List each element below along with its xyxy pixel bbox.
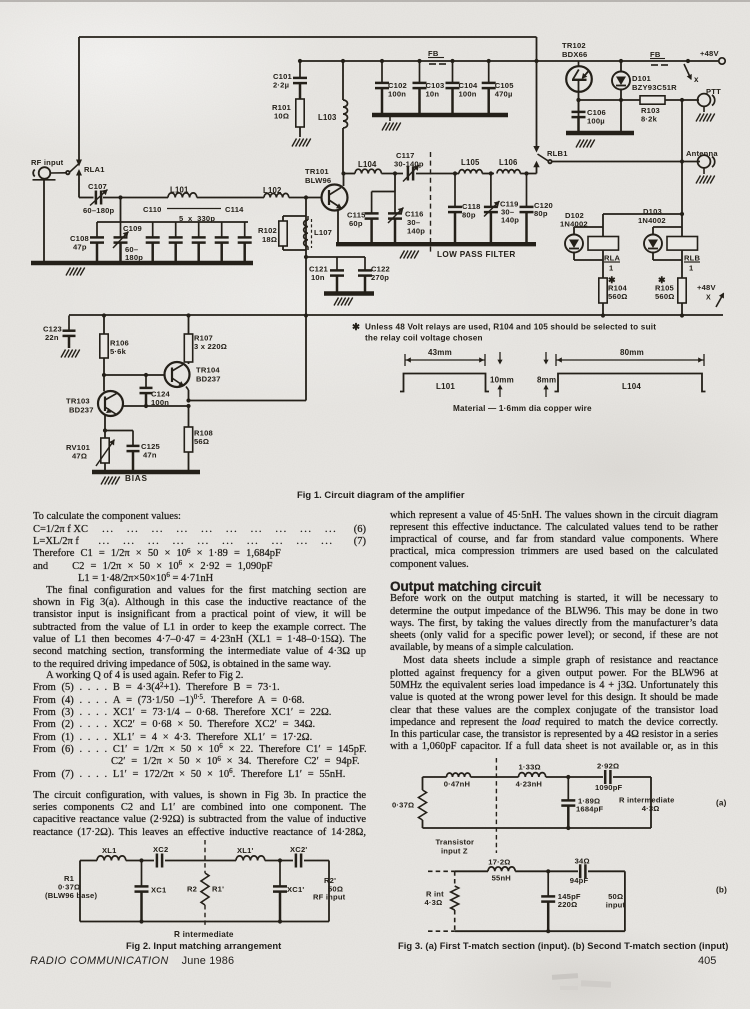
svg-text:10mm: 10mm [490,376,514,385]
svg-text:4·3Ω: 4·3Ω [642,804,660,813]
svg-text:C109: C109 [123,224,142,233]
svg-text:XC2: XC2 [153,845,168,854]
svg-text:47n: 47n [143,451,157,460]
svg-text:XL1': XL1' [237,846,254,855]
svg-text:1: 1 [609,264,614,273]
svg-text:5·6k: 5·6k [110,347,127,356]
svg-text:47Ω: 47Ω [72,452,87,461]
svg-text:LOW PASS FILTER: LOW PASS FILTER [437,250,516,259]
svg-text:BLW96: BLW96 [305,176,331,185]
svg-text:TR103: TR103 [66,397,90,406]
svg-text:1090pF: 1090pF [595,783,623,792]
svg-text:220Ω: 220Ω [558,900,578,909]
svg-text:(a): (a) [716,799,727,808]
svg-text:BIAS: BIAS [125,474,148,483]
svg-text:22n: 22n [45,333,59,342]
svg-text:x: x [694,75,699,84]
svg-text:100n: 100n [459,90,477,99]
svg-text:L104: L104 [622,382,641,391]
svg-text:2·92Ω: 2·92Ω [597,762,619,771]
svg-text:L104: L104 [358,160,377,169]
svg-text:RLA: RLA [604,254,621,263]
svg-text:TR102: TR102 [562,41,586,50]
svg-text:RLB1: RLB1 [547,149,568,158]
svg-text:60p: 60p [349,219,363,228]
svg-text:+48V: +48V [697,283,716,292]
svg-text:(b): (b) [716,886,727,895]
svg-text:18Ω: 18Ω [262,235,277,244]
svg-text:55nH: 55nH [492,874,511,883]
svg-text:XC1': XC1' [287,885,304,894]
svg-text:+48V: +48V [700,49,719,58]
svg-text:17·2Ω: 17·2Ω [488,858,510,867]
svg-text:L101: L101 [170,186,189,195]
svg-text:BDX66: BDX66 [562,50,587,59]
svg-text:10n: 10n [426,90,440,99]
svg-text:1: 1 [689,264,694,273]
svg-text:L106: L106 [499,158,518,167]
svg-text:(BLW96 base): (BLW96 base) [45,891,97,900]
svg-text:TR104: TR104 [196,366,220,375]
svg-text:5 x 330p: 5 x 330p [179,214,215,223]
svg-text:560Ω: 560Ω [655,292,675,301]
svg-text:XC1: XC1 [151,886,167,895]
svg-text:BD237: BD237 [69,406,94,415]
svg-text:Material — 1·6mm dia copper wi: Material — 1·6mm dia copper wire [453,404,592,413]
svg-text:1684pF: 1684pF [576,805,604,814]
svg-text:80mm: 80mm [620,348,644,357]
svg-text:140p: 140p [407,227,425,236]
svg-text:X: X [706,295,711,302]
svg-text:0·37Ω: 0·37Ω [392,801,414,810]
svg-text:56Ω: 56Ω [194,437,209,446]
svg-text:XL1: XL1 [102,846,117,855]
svg-text:1·33Ω: 1·33Ω [519,763,541,772]
svg-text:10Ω: 10Ω [274,112,289,121]
svg-text:34Ω: 34Ω [575,857,590,866]
svg-text:XC2': XC2' [290,845,307,854]
svg-text:RF input: RF input [31,158,64,167]
svg-text:D101: D101 [632,74,652,83]
svg-text:43mm: 43mm [428,348,452,357]
svg-text:FB: FB [428,49,439,58]
svg-text:1N4002: 1N4002 [638,216,666,225]
svg-text:8mm: 8mm [537,376,556,385]
svg-text:R intermediate: R intermediate [174,930,234,939]
svg-text:0·47nH: 0·47nH [444,780,471,789]
svg-text:input Z: input Z [441,847,468,856]
svg-text:R1': R1' [212,885,224,894]
svg-text:BD237: BD237 [196,375,221,384]
svg-text:R2: R2 [187,885,197,894]
svg-text:4·23nH: 4·23nH [516,780,543,789]
svg-text:FB: FB [650,50,661,59]
svg-text:RF input: RF input [313,893,346,902]
svg-text:BZY93C51R: BZY93C51R [632,83,677,92]
svg-text:TR101: TR101 [305,167,329,176]
svg-text:RLB: RLB [684,254,701,263]
svg-text:80p: 80p [534,209,548,218]
svg-text:C110: C110 [143,205,162,214]
svg-text:2·2µ: 2·2µ [273,81,289,90]
svg-text:470µ: 470µ [495,90,513,99]
svg-text:180p: 180p [125,253,143,262]
svg-text:C107: C107 [88,182,107,191]
svg-text:the relay coil voltage chosen: the relay coil voltage chosen [365,334,483,343]
svg-text:L102: L102 [263,186,282,195]
svg-text:140p: 140p [501,216,519,225]
svg-text:Transistor: Transistor [436,838,475,847]
svg-text:input: input [606,900,626,909]
svg-text:4·3Ω: 4·3Ω [425,898,443,907]
svg-text:100n: 100n [388,90,406,99]
svg-text:8·2k: 8·2k [641,115,658,124]
svg-text:80p: 80p [462,211,476,220]
svg-text:✱: ✱ [352,322,361,333]
svg-text:C114: C114 [225,205,244,214]
svg-text:30-140p: 30-140p [394,160,424,169]
svg-text:270p: 270p [371,273,389,282]
svg-text:L105: L105 [461,158,480,167]
svg-text:100µ: 100µ [587,117,605,126]
svg-text:RLA1: RLA1 [84,165,105,174]
svg-text:10n: 10n [311,273,325,282]
svg-text:L107: L107 [314,228,332,237]
svg-text:560Ω: 560Ω [608,292,628,301]
svg-text:60–180p: 60–180p [83,206,115,215]
svg-text:3 x 220Ω: 3 x 220Ω [194,342,227,351]
svg-text:94pF: 94pF [570,876,589,885]
svg-text:47p: 47p [73,243,87,252]
svg-text:L103: L103 [318,113,337,122]
svg-text:Unless 48 Volt relays are used: Unless 48 Volt relays are used, R104 and… [365,323,656,332]
svg-text:D103: D103 [643,207,662,216]
svg-text:R102: R102 [258,226,277,235]
svg-text:L101: L101 [436,382,455,391]
